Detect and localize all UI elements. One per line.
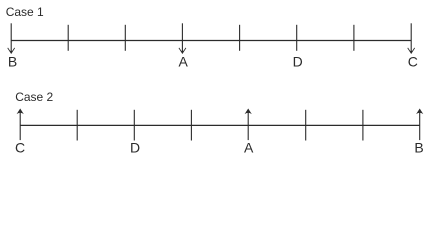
svg-text:D: D: [293, 53, 303, 69]
case 1 tick 5: [353, 25, 355, 51]
case 2 tick 5: [362, 110, 364, 141]
svg-text:D: D: [130, 139, 140, 155]
case 2 tick 3: [190, 110, 192, 141]
case 1 down arrow at B: [8, 23, 15, 54]
svg-text:A: A: [179, 53, 189, 69]
case 2 tick 1: [76, 110, 78, 141]
case 1 number line: [11, 40, 411, 42]
svg-text:B: B: [414, 139, 423, 155]
case 1 tick 4 (point D): [296, 25, 298, 51]
case 2 number line: [20, 124, 420, 126]
svg-text:A: A: [244, 139, 254, 155]
case 1 down arrow at A: [179, 23, 186, 54]
case 2 up arrow at B: [416, 109, 423, 141]
svg-text:Case 2: Case 2: [15, 90, 53, 104]
case 2 tick 2 (point D): [133, 110, 135, 141]
svg-text:C: C: [408, 53, 418, 69]
case 1 down arrow at C: [408, 23, 415, 54]
svg-text:C: C: [15, 139, 25, 155]
svg-text:Case 1: Case 1: [6, 5, 44, 19]
case 1 tick 2: [124, 25, 126, 51]
svg-text:B: B: [8, 53, 17, 69]
case 1 tick 3: [239, 25, 241, 51]
case 2 up arrow at C: [17, 109, 24, 141]
case 2 up arrow at A: [245, 109, 252, 141]
case 2 tick 4: [305, 110, 307, 141]
case 1 tick 1: [67, 25, 69, 51]
